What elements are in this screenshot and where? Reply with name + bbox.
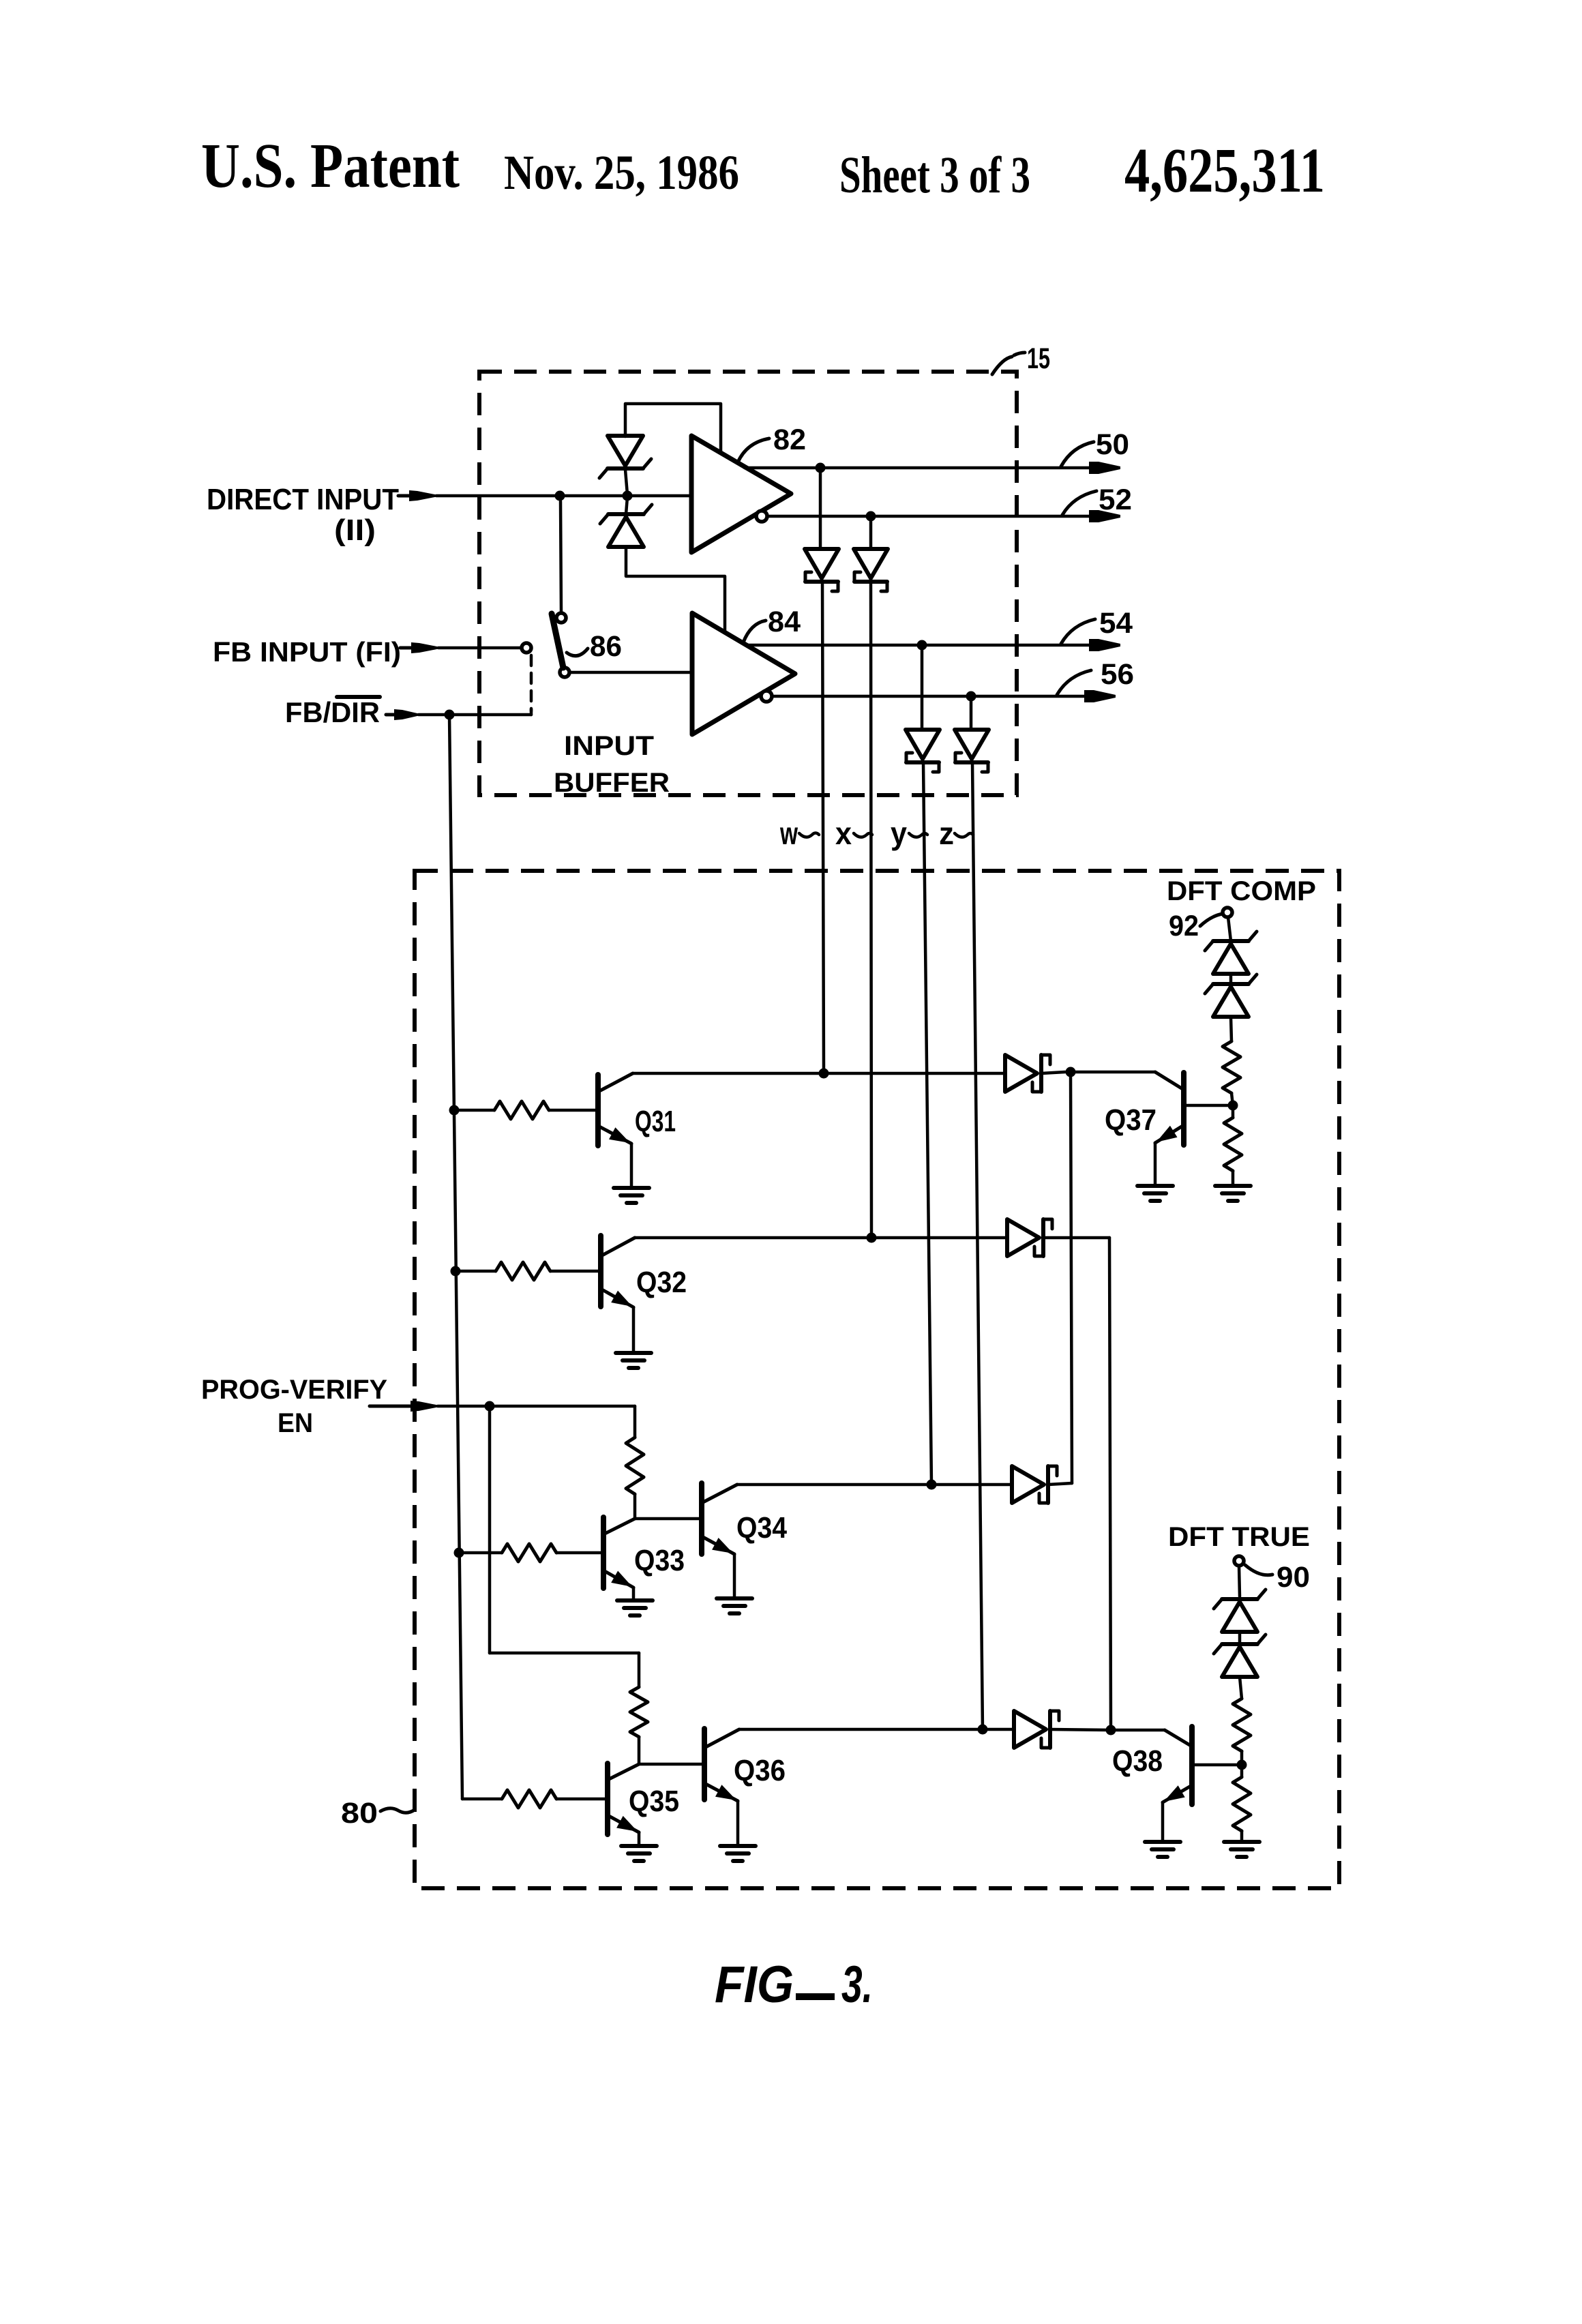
label DIRECT INPUT (207, 483, 399, 516)
transistor Q38 base bar (1189, 1727, 1195, 1804)
ground R92b (1215, 1186, 1251, 1201)
svg-text:DFT COMP: DFT COMP (1167, 876, 1316, 906)
resistor R31 (494, 1101, 549, 1119)
switch 86 top contact (556, 613, 566, 623)
label FB INPUT (FI) (213, 636, 401, 668)
wire fb input (438, 646, 521, 650)
svg-text:z: z (939, 816, 954, 851)
transistor Q38 base wire (1192, 1763, 1237, 1767)
node: w to Q31 collector (819, 1069, 829, 1079)
label BUFFER (554, 768, 670, 798)
label Q31 (635, 1105, 676, 1138)
label 82 (773, 423, 806, 456)
wire Q35 base lead left (462, 1798, 502, 1801)
svg-text:U.S. Patent: U.S. Patent (201, 131, 460, 201)
switch 86 bottom contact (560, 668, 569, 677)
label 54 leader (1061, 619, 1095, 644)
transistor Q36 emitter (704, 1783, 738, 1801)
svg-text:Q38: Q38 (1112, 1744, 1163, 1778)
zener Z90b (1214, 1635, 1266, 1677)
svg-text:w: w (779, 816, 798, 851)
transistor Q37 base bar (1181, 1073, 1186, 1145)
resistor R34 (collector load) (626, 1437, 644, 1494)
wire y lower (923, 762, 931, 1485)
wire D3 output (1048, 1483, 1072, 1485)
label 80 leader (380, 1808, 415, 1813)
wire Q31 base lead left (454, 1109, 494, 1112)
wire node A vertical (1071, 1072, 1072, 1483)
figure label underscore (796, 1993, 835, 2000)
transistor Q33 emitter (603, 1570, 633, 1588)
label 86 (590, 630, 622, 663)
diode w (schottky) (805, 549, 839, 591)
label 52 leader (1062, 491, 1096, 515)
wire zener to resistor (1231, 1017, 1232, 1041)
transistor Q37 emitter (1155, 1125, 1184, 1143)
header text: date Nov. 25, 1986 (504, 145, 739, 200)
wire zener stack join (1229, 974, 1233, 984)
label Q33 (634, 1544, 685, 1577)
wire Q37 emitter drop (1154, 1143, 1157, 1185)
node: Q33 base tap (454, 1548, 464, 1558)
wire Q35 base lead right (556, 1798, 608, 1801)
header text: Sheet 3 of 3 (839, 147, 1030, 204)
label 90 (1277, 1561, 1310, 1594)
arrow output 52 (1089, 510, 1120, 522)
label z (939, 816, 954, 851)
header text: patent number 4,625,311 (1124, 136, 1325, 206)
op-amp buffer 82 (691, 436, 791, 552)
wire y upper (921, 645, 924, 730)
input buffer dashed box 15 (479, 372, 1017, 795)
transistor Q36 base bar (702, 1729, 707, 1800)
resistor R90a (1233, 1699, 1251, 1751)
wire Q32 base lead left (456, 1270, 496, 1273)
transistor Q31 collector (598, 1073, 633, 1092)
diode D1 (schottky) (1005, 1055, 1050, 1092)
transistor Q31 base bar (595, 1075, 601, 1146)
svg-text:56: 56 (1101, 658, 1134, 691)
wire drop to switch (561, 501, 561, 612)
wire Q35 emitter drop (638, 1832, 641, 1845)
label FB/DIR with overline (285, 696, 380, 728)
label PROG-VERIFY (201, 1375, 387, 1405)
buffer 82 inverting output circle (756, 511, 767, 522)
zener Z92b (1205, 974, 1257, 1017)
node: Q38 base divider (1237, 1760, 1247, 1770)
transistor Q38 emitter (1163, 1785, 1192, 1802)
wire switch to buffer 84 (569, 671, 692, 674)
svg-text:86: 86 (590, 630, 622, 663)
transistor Q34 collector (702, 1485, 737, 1503)
svg-text:Q33: Q33 (634, 1544, 685, 1577)
zener D82a (loop upper) (599, 436, 651, 478)
label y squiggle (909, 833, 927, 837)
transistor Q34 emitter (702, 1536, 734, 1554)
wire Q36 base (639, 1763, 704, 1766)
resistor R32 (496, 1262, 550, 1280)
wire D2 output vertical (1109, 1238, 1111, 1730)
wire output 50 (745, 466, 1091, 470)
node: z tap on line 56 (966, 691, 976, 702)
node A: comparator input node (1066, 1067, 1076, 1077)
transistor Q34 base bar (699, 1483, 704, 1554)
wire Q33 emitter drop (632, 1588, 636, 1599)
buffer 84 inverting output circle (761, 691, 772, 702)
transistor Q31 emitter (598, 1126, 631, 1144)
svg-text:DFT TRUE: DFT TRUE (1168, 1522, 1310, 1552)
wire x upper (869, 516, 873, 549)
svg-text:Q34: Q34 (736, 1511, 787, 1545)
wire loop top of buffer 82 (625, 404, 721, 453)
resistor R90b (1233, 1777, 1251, 1831)
svg-text:50: 50 (1096, 428, 1129, 461)
transistor Q33 collector (603, 1519, 635, 1534)
transistor Q37 base wire (1184, 1104, 1228, 1107)
label w squiggle (799, 833, 819, 837)
node: direct input junction to switch (555, 491, 565, 501)
ground Q37 (1137, 1186, 1173, 1201)
label Q37 (1105, 1103, 1156, 1137)
wire x lower (871, 582, 871, 1238)
svg-text:Q36: Q36 (734, 1754, 786, 1787)
wire Q38 emitter drop (1161, 1802, 1165, 1841)
node: z to Q36 collector (978, 1725, 988, 1735)
wire R34 to node (633, 1494, 637, 1519)
label (II) (334, 513, 376, 547)
zener D82b (loop lower) (600, 497, 652, 547)
dashed elbow fb to fb/dir (530, 655, 533, 711)
svg-text:FB/DIR: FB/DIR (285, 696, 380, 728)
svg-text:4,625,311: 4,625,311 (1124, 136, 1325, 206)
wire zener D82a to input (625, 470, 627, 494)
label EN (278, 1408, 313, 1438)
wire direct input (436, 494, 691, 498)
transistor Q35 emitter (608, 1815, 639, 1832)
transistor Q33 base bar (601, 1517, 606, 1588)
wire Q33 base lead right (556, 1551, 603, 1555)
diode x (schottky) (854, 549, 888, 591)
wire D2 output (1043, 1236, 1109, 1240)
transistor Q32 emitter (601, 1289, 633, 1307)
label Q32 (636, 1266, 687, 1299)
label Q36 (734, 1754, 786, 1787)
lower dashed box 80 (415, 871, 1339, 1888)
svg-text:FB INPUT (FI): FB INPUT (FI) (213, 636, 401, 668)
wire 90 to zener stack (1239, 1566, 1240, 1596)
ground Q32 (616, 1353, 651, 1368)
direct input arrow (398, 490, 436, 501)
arrow output 50 (1089, 462, 1120, 474)
transistor Q35 base bar (605, 1763, 610, 1834)
wire output 56 (772, 695, 1086, 698)
wire z lower (972, 762, 983, 1729)
fb/dir arrow (386, 709, 419, 720)
svg-text:15: 15 (1027, 342, 1050, 375)
terminal 90 circle (1234, 1556, 1244, 1566)
wire z upper (970, 696, 973, 730)
wire 92 to zener stack (1228, 917, 1231, 941)
label 90 leader (1245, 1565, 1272, 1575)
node: direct input zener tap (623, 491, 633, 501)
wire Q31 emitter drop (630, 1144, 633, 1187)
terminal 92 circle (1223, 908, 1232, 917)
diode D2 (schottky) (1007, 1219, 1052, 1256)
wire Q31 base lead right (549, 1109, 598, 1112)
label 50 (1096, 428, 1129, 461)
node: fb/dir junction (445, 710, 455, 720)
node: y to Q34 collector (927, 1480, 937, 1490)
label 84 leader (743, 621, 766, 642)
wire D1 output (1041, 1072, 1065, 1073)
diode D4 (schottky) (1014, 1711, 1059, 1748)
svg-text:Q32: Q32 (636, 1266, 687, 1299)
svg-text:52: 52 (1099, 483, 1132, 516)
label x (835, 816, 852, 851)
label 52 (1099, 483, 1132, 516)
svg-text:Q37: Q37 (1105, 1103, 1156, 1137)
figure label FIG (715, 1956, 794, 2014)
label DFT TRUE (1168, 1522, 1310, 1552)
fb input arrow (400, 642, 438, 653)
svg-text:Sheet 3 of 3: Sheet 3 of 3 (839, 147, 1030, 204)
node: Q31 base tap (449, 1105, 460, 1116)
wire Q36 collector line (739, 1728, 1014, 1731)
label 15 leader (992, 353, 1025, 374)
svg-text:84: 84 (768, 606, 801, 638)
arrow output 54 (1089, 639, 1120, 651)
svg-text:(II): (II) (334, 513, 376, 547)
label Q35 (629, 1785, 679, 1818)
svg-text:54: 54 (1099, 607, 1133, 640)
node: Q32 base tap (451, 1266, 461, 1277)
wire Q36 emitter drop (736, 1801, 740, 1845)
wire R90a to node (1240, 1751, 1244, 1765)
transistor Q38 collector diag (1165, 1730, 1192, 1746)
wire w lower (822, 582, 824, 1073)
label 92 leader (1200, 914, 1223, 926)
transistor Q35 collector (608, 1764, 639, 1780)
wire Q32 emitter drop (632, 1307, 636, 1352)
resistor R36 (collector load) (630, 1687, 648, 1737)
svg-text:y: y (891, 816, 907, 851)
svg-text:x: x (835, 816, 852, 851)
ground Q34 (717, 1598, 752, 1613)
wire output 52 (767, 515, 1091, 518)
zener Z90a (1214, 1590, 1266, 1632)
svg-text:Nov. 25, 1986: Nov. 25, 1986 (504, 145, 739, 200)
arrow output 56 (1084, 690, 1116, 702)
wire R33 top drop (633, 1406, 637, 1437)
label 15 (1027, 342, 1050, 375)
ground Q33 (617, 1600, 653, 1615)
ground R90b (1224, 1842, 1259, 1857)
ground Q38 (1145, 1842, 1180, 1857)
label INPUT (564, 731, 654, 761)
label 56 (1101, 658, 1134, 691)
prog-verify en arrow (370, 1401, 438, 1412)
node: x tap on line 52 (866, 511, 876, 522)
wire Q34 collector line (737, 1483, 1012, 1487)
wire R92b to ground (1232, 1171, 1235, 1185)
label Q34 (736, 1511, 787, 1545)
svg-text:Q31: Q31 (635, 1105, 676, 1138)
label 84 (768, 606, 801, 638)
wire prog-verify elbow (490, 1652, 639, 1655)
wire D4 output (1050, 1729, 1111, 1730)
resistor R92b (1224, 1118, 1242, 1171)
wire output 54 (745, 644, 1091, 647)
node: Q37 base divider (1228, 1101, 1238, 1111)
transistor Q37 collector diag (1155, 1072, 1184, 1090)
wire w upper (819, 468, 822, 549)
svg-text:INPUT: INPUT (564, 731, 654, 761)
wire fb/dir input (419, 709, 531, 715)
transistor Q36 collector (704, 1729, 739, 1748)
wire R90b to ground (1240, 1831, 1244, 1841)
wire fb/dir long vertical (449, 715, 462, 1799)
wire loop bottom to buffer 84 (626, 547, 725, 632)
ground Q35 (621, 1846, 657, 1861)
svg-text:BUFFER: BUFFER (554, 768, 670, 798)
svg-text:80: 80 (341, 1797, 378, 1830)
wire prog-verify en (438, 1405, 635, 1408)
label DFT COMP (1167, 876, 1316, 906)
resistor R33 (502, 1544, 556, 1562)
svg-text:92: 92 (1169, 910, 1199, 942)
resistor R92a (1223, 1041, 1240, 1093)
label 56 leader (1057, 670, 1091, 695)
wire R92a to node (1232, 1093, 1233, 1105)
wire node to R90b (1240, 1765, 1244, 1777)
svg-text:EN: EN (278, 1408, 313, 1438)
label y (891, 816, 907, 851)
wire node A to Q37 collector (1071, 1071, 1155, 1074)
wire Q32 collector line (635, 1236, 1007, 1240)
figure label 3. (841, 1956, 873, 2014)
svg-text:90: 90 (1277, 1561, 1310, 1594)
wire Q31 collector line (633, 1072, 1005, 1075)
node: x to Q32 collector (867, 1233, 877, 1243)
label 82 leader (738, 438, 769, 462)
zener Z92a (1205, 932, 1257, 974)
wire R36 to node (638, 1737, 641, 1764)
fb input contact circle (522, 643, 531, 653)
wire prog-verify vertical (488, 1406, 492, 1653)
svg-text:3.: 3. (841, 1956, 873, 2014)
node B: true input node (1106, 1725, 1116, 1735)
wire Q34 base (635, 1517, 702, 1521)
node: y tap on line 54 (917, 640, 927, 651)
wire Q33 base lead left (459, 1551, 502, 1555)
diode z (schottky) (955, 730, 989, 772)
svg-text:82: 82 (773, 423, 806, 456)
label z squiggle (955, 833, 973, 837)
label x squiggle (854, 833, 872, 837)
ground Q36 (720, 1846, 756, 1861)
wire node to R92b (1232, 1105, 1235, 1118)
wire R36 top drop (638, 1653, 641, 1687)
wire node B to Q38 collector (1111, 1729, 1165, 1732)
switch 86 arm (552, 614, 563, 668)
label 80 (341, 1797, 378, 1830)
resistor R35 (502, 1790, 556, 1808)
diode D3 (schottky) (1012, 1466, 1057, 1503)
transistor Q32 base bar (598, 1236, 603, 1307)
wire zener to resistor 90 (1240, 1677, 1242, 1699)
label 50 leader (1061, 442, 1094, 466)
svg-text:FIG: FIG (715, 1956, 794, 2014)
op-amp buffer 84 (692, 613, 795, 734)
label Q38 (1112, 1744, 1163, 1778)
ground Q31 (614, 1188, 649, 1203)
transistor Q32 collector (601, 1238, 635, 1256)
label 92 (1169, 910, 1199, 942)
svg-text:Q35: Q35 (629, 1785, 679, 1818)
svg-text:DIRECT INPUT: DIRECT INPUT (207, 483, 399, 516)
diode y (schottky) (906, 730, 940, 772)
svg-text:PROG-VERIFY: PROG-VERIFY (201, 1375, 387, 1405)
node: w tap on line 50 (816, 463, 826, 473)
node: prog-verify junction (485, 1401, 495, 1412)
label 54 (1099, 607, 1133, 640)
wire Q34 emitter drop (733, 1554, 736, 1597)
wire Q32 base lead right (550, 1270, 601, 1273)
label 86 leader (567, 649, 588, 656)
label w (779, 816, 798, 851)
header text: U.S. Patent (201, 131, 460, 201)
wire zener stack join 90 (1238, 1632, 1242, 1644)
